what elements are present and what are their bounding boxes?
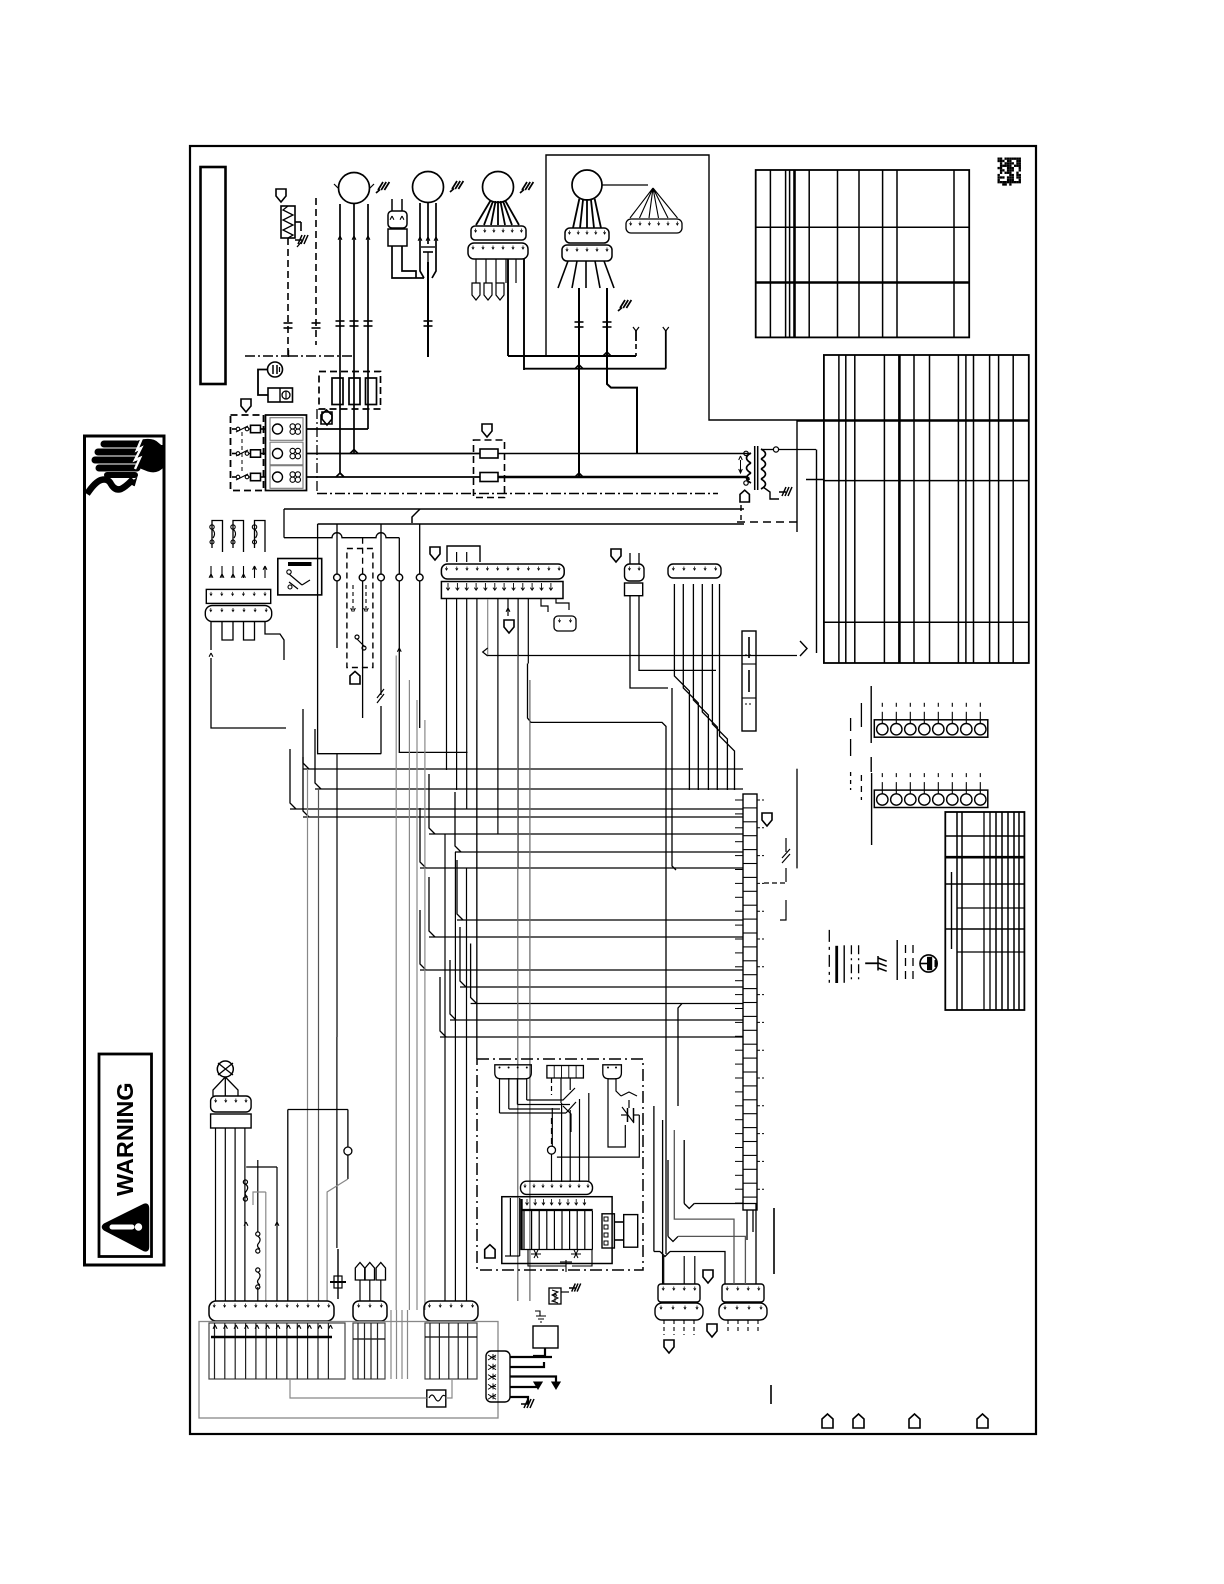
wire (526, 1078, 528, 1100)
wire (629, 553, 631, 564)
wire (315, 198, 317, 345)
M4 comb a (565, 228, 609, 243)
wire (572, 261, 577, 288)
ign comb 1 (495, 1065, 532, 1079)
wire (241, 432, 243, 474)
wire (475, 259, 477, 283)
wire (316, 409, 318, 494)
wire (678, 1004, 682, 1107)
wire (232, 476, 236, 478)
contactor coil (273, 449, 283, 459)
wire (585, 261, 587, 288)
wire (395, 656, 397, 1311)
ladder pins (735, 799, 743, 801)
wire (850, 718, 852, 731)
capacitor ticks (575, 321, 584, 323)
gray link (290, 1379, 427, 1398)
house (822, 1414, 833, 1428)
doorswitch box (268, 388, 293, 402)
plug 2pin (625, 564, 645, 581)
pair1 stubs (663, 1256, 665, 1284)
house (350, 671, 360, 684)
ladder connector (743, 794, 757, 1210)
board 2 (353, 1323, 385, 1379)
conn pair 2b (719, 1303, 767, 1320)
wire (517, 656, 519, 1302)
wire (670, 1252, 725, 1285)
wire (476, 201, 490, 225)
wire (712, 584, 727, 790)
capacitor ticks (284, 322, 293, 324)
contact (295, 454, 300, 459)
wire (693, 584, 708, 790)
inrush mark (376, 182, 389, 193)
arrow (221, 566, 223, 578)
wire (244, 1128, 246, 1301)
wire y1 (635, 330, 637, 341)
warning sidebar frame (85, 436, 165, 1265)
contact (290, 454, 295, 459)
wire (362, 538, 364, 574)
inducer press sw (217, 1061, 233, 1077)
wire bold (510, 1362, 544, 1367)
disconnect symbol (268, 362, 283, 377)
wire (287, 238, 289, 356)
contact (290, 472, 295, 477)
wire (476, 700, 478, 1059)
arrows above board1 (213, 1325, 217, 1329)
hop wire (284, 533, 399, 538)
contactor cell (270, 418, 303, 441)
junction (575, 473, 583, 477)
wire (495, 259, 497, 283)
dashdot (288, 350, 290, 357)
wire row3 (307, 476, 481, 478)
wire (399, 581, 467, 752)
control board (502, 1197, 612, 1264)
wire (797, 419, 824, 421)
board 3 (425, 1323, 477, 1379)
arrow (434, 237, 438, 241)
inrush mark (520, 182, 533, 193)
wire row2b (498, 453, 748, 455)
shield (611, 549, 621, 562)
wire (806, 479, 824, 481)
wire bracket (246, 1166, 277, 1168)
wire (557, 1115, 639, 1157)
contactor box (266, 415, 307, 491)
wire (336, 1037, 338, 1248)
wire (674, 584, 689, 790)
wire (505, 201, 519, 225)
wire (586, 199, 588, 228)
flags 3 (355, 1263, 364, 1281)
wire (951, 872, 953, 949)
bevel (420, 910, 426, 970)
chassis ground 2 (779, 487, 792, 496)
table 3 (notes) (945, 812, 1024, 1010)
wire (720, 584, 735, 790)
section box (546, 155, 797, 420)
bevel (455, 792, 461, 852)
datamatrix code (998, 158, 1021, 186)
capacitor ticks (350, 320, 359, 322)
wire (288, 355, 352, 357)
wire (307, 769, 309, 1301)
contact (295, 429, 300, 434)
arrow glyphs (351, 585, 356, 613)
wire (865, 962, 878, 964)
wire (367, 204, 369, 330)
flame resistor (549, 1288, 561, 1304)
board comb 1 (209, 1301, 334, 1321)
electric shock hazard icon (95, 444, 139, 475)
arrow (418, 237, 422, 241)
contact (295, 424, 300, 429)
chassis ground 1 (295, 235, 308, 244)
arrow (366, 236, 370, 240)
breaker switch (236, 475, 240, 479)
u link (244, 622, 255, 641)
shield (707, 1324, 717, 1337)
wire (336, 754, 338, 1037)
wire (402, 246, 416, 278)
contact (290, 429, 295, 434)
house (485, 1245, 495, 1258)
wire (896, 940, 898, 980)
wire (419, 524, 421, 574)
svg-text:WARNING: WARNING (112, 1082, 138, 1196)
blower motor M4 (572, 170, 602, 200)
ladder bottom stubs (746, 1210, 748, 1240)
chassis ground (521, 1399, 534, 1408)
pin row (526, 1199, 529, 1205)
warning label frame (99, 1054, 152, 1257)
wire (295, 221, 301, 223)
wire (683, 584, 698, 790)
M3 comb a (471, 226, 526, 240)
ladder dashes (757, 799, 764, 801)
M3 comb b (468, 243, 528, 259)
bevel (450, 960, 456, 1020)
heat exchanger shield (276, 189, 286, 202)
breaker switch (236, 427, 240, 431)
sym N1 (531, 1250, 541, 1258)
bevel (471, 944, 477, 1004)
wire (424, 720, 426, 1310)
wire (408, 680, 410, 1310)
bevel (429, 774, 435, 834)
junction (603, 352, 611, 356)
wire (796, 769, 798, 869)
junction (575, 365, 583, 369)
chassis ground (569, 1284, 581, 1292)
limit comb a (206, 589, 270, 603)
wire (257, 1160, 259, 1232)
wire (336, 581, 338, 648)
wire (258, 370, 268, 396)
M4 comb b (562, 245, 612, 261)
wire (529, 680, 531, 1301)
wire row1 (307, 428, 369, 430)
u link (222, 622, 233, 641)
bevel (303, 709, 309, 769)
wire (427, 330, 429, 357)
wire bracket 2 (288, 1109, 348, 1111)
hsi box (533, 1326, 558, 1348)
arrow (243, 566, 245, 578)
wire (318, 789, 320, 1301)
junction (336, 473, 344, 477)
junction circle (344, 1147, 352, 1155)
wire (515, 259, 517, 283)
arrow (232, 566, 234, 578)
wire stubs (663, 1320, 665, 1335)
bevel (457, 860, 463, 920)
breaker dashed box (231, 415, 264, 491)
contact (290, 424, 295, 429)
wire (505, 259, 507, 283)
breaker fuse (251, 450, 261, 457)
wire (398, 538, 400, 574)
breaker fuse (251, 425, 261, 432)
flame rod (337, 1249, 339, 1299)
wire (860, 703, 862, 727)
fuse dashed box (319, 372, 381, 410)
gray pass wires (390, 1310, 392, 1379)
arrow (244, 1222, 248, 1226)
conn pair 1b (655, 1303, 703, 1320)
wire (578, 288, 580, 477)
wire (551, 1108, 553, 1147)
igniter fan (630, 188, 678, 218)
limit chain 1 (243, 1180, 247, 1184)
wire (336, 524, 338, 574)
wire (503, 201, 512, 225)
arrow (338, 236, 342, 240)
wire (508, 1078, 510, 1109)
wire trunk (528, 664, 667, 1255)
house (321, 410, 332, 424)
wire (653, 1106, 655, 1252)
wire (367, 378, 369, 429)
wire (491, 201, 496, 225)
table 2 (legend) (824, 355, 1029, 663)
wire (232, 453, 236, 455)
ign comb 3 (603, 1065, 622, 1079)
wire (761, 449, 773, 451)
fuse F1 (427, 1390, 446, 1407)
wire (607, 288, 637, 454)
wire (541, 598, 548, 612)
wire y2 (665, 330, 667, 369)
contactor coil (273, 472, 283, 482)
shield (762, 813, 772, 826)
wire (748, 453, 751, 455)
fuse (366, 378, 377, 405)
terminal circle (744, 451, 748, 455)
shield (482, 424, 492, 437)
conn pair 1a (658, 1284, 700, 1302)
wire row2 (307, 453, 481, 455)
junction (548, 1146, 556, 1154)
wire (276, 1167, 278, 1301)
fan motor M2 (413, 172, 444, 203)
wire trunks (488, 655, 797, 657)
wire (339, 204, 341, 330)
capacitor ticks (312, 322, 321, 324)
wire (353, 378, 355, 454)
circle row (334, 574, 341, 581)
wire (580, 199, 583, 228)
thermostat strip 2 (874, 790, 988, 807)
wire (523, 259, 525, 370)
wire (318, 524, 382, 754)
contact (295, 448, 300, 453)
wire bold (510, 1397, 528, 1404)
wire (347, 1110, 349, 1148)
wire (432, 244, 436, 278)
blower motor M1 (339, 173, 370, 204)
capacitor ticks (364, 320, 373, 322)
wire (416, 700, 418, 1310)
comb 6pin (668, 564, 721, 578)
conn pair 2a (722, 1284, 764, 1302)
wire (353, 204, 355, 330)
wire (392, 246, 412, 278)
board outline (199, 1322, 498, 1419)
thermostat strip 1 (874, 720, 988, 737)
junction Y (668, 1236, 678, 1241)
breaker switch (236, 452, 240, 456)
v seg (773, 1208, 775, 1274)
wire (454, 852, 456, 1301)
contactor coil (273, 424, 283, 434)
pressure sw box (278, 559, 322, 595)
resistor HE (281, 206, 295, 238)
merge bracket (800, 641, 807, 656)
dash link (764, 882, 786, 884)
capacitor sym (421, 246, 435, 248)
main plug comb a (441, 564, 564, 579)
wire (435, 203, 437, 244)
sym N2 (571, 1250, 581, 1258)
bevel (483, 648, 488, 656)
arrow (426, 237, 430, 241)
arrow (506, 608, 510, 612)
fuse box 2 (474, 440, 505, 498)
bevel (303, 757, 309, 817)
wire (516, 1078, 518, 1105)
wire (561, 1103, 563, 1182)
shield (703, 1270, 713, 1283)
side conn (602, 1214, 614, 1248)
earth ground symbol (920, 955, 937, 972)
dashed box small (347, 549, 373, 668)
control comb (521, 1181, 593, 1194)
wire (362, 581, 364, 718)
shield (430, 547, 440, 560)
contact (290, 448, 295, 453)
igniter box (477, 1059, 643, 1270)
wire (591, 199, 594, 228)
arrow (254, 566, 256, 578)
wire (213, 1077, 225, 1096)
wire (466, 868, 468, 1301)
wire trunk (284, 508, 744, 510)
aux box (447, 546, 480, 562)
cap C1 (621, 1092, 637, 1096)
dashdot row (317, 493, 718, 495)
wire (265, 1192, 267, 1301)
wire (419, 581, 421, 728)
wire (427, 203, 429, 244)
wire (339, 378, 341, 473)
shield (241, 399, 251, 412)
wire (508, 290, 546, 356)
wire (484, 201, 493, 225)
table3 inner (957, 907, 1024, 909)
wire k (566, 1102, 576, 1113)
contact (295, 477, 300, 482)
wire (595, 261, 600, 288)
transformer T1 (747, 453, 752, 463)
inrush mark (450, 181, 463, 192)
main plug comb b (441, 582, 563, 599)
junction Y (660, 1252, 670, 1257)
limit comb b (205, 606, 271, 622)
bevel (460, 927, 466, 987)
wire (380, 524, 382, 574)
wire (694, 1204, 756, 1285)
wire (234, 1128, 236, 1301)
shield (664, 1340, 674, 1353)
arrow (264, 566, 266, 578)
wire (678, 1236, 745, 1284)
board 1 (209, 1323, 345, 1379)
wire (232, 428, 236, 430)
wire (556, 598, 569, 610)
contactor cell (270, 442, 303, 465)
wire (602, 184, 648, 186)
wire (608, 1078, 625, 1147)
upper dual connector (742, 631, 756, 731)
bevel (429, 877, 435, 937)
wire (561, 1291, 569, 1293)
wire (672, 688, 676, 870)
inducer motor M3 (483, 172, 514, 203)
wire (573, 199, 579, 228)
wire (265, 622, 284, 661)
wire (210, 622, 212, 651)
small comb (626, 219, 682, 233)
3pin comb (554, 616, 576, 631)
rollout switch (233, 521, 244, 553)
contact (290, 477, 295, 482)
table 1 (ratings) (756, 170, 970, 337)
junction (350, 450, 358, 454)
wire trunk (318, 523, 744, 525)
ground bus (828, 930, 830, 983)
rollout switch (212, 521, 223, 553)
wire (420, 244, 424, 278)
shield (504, 620, 514, 633)
side block (624, 1215, 638, 1248)
house (740, 490, 749, 502)
shield (322, 412, 332, 425)
wire (211, 658, 286, 728)
wire (763, 487, 779, 499)
